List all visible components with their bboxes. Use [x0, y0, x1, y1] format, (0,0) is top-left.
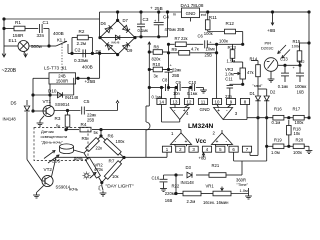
- svg-text:0.1мк: 0.1мк: [152, 94, 163, 99]
- svg-text:"smd": "smd": [253, 84, 264, 88]
- svg-text:D10: D10: [48, 88, 57, 93]
- svg-text:0.33мк: 0.33мк: [74, 58, 89, 63]
- svg-text:+25В: +25В: [85, 79, 96, 84]
- svg-text:10мк: 10мк: [206, 46, 216, 51]
- svg-text:D9: D9: [127, 48, 133, 53]
- svg-text:400В: 400В: [53, 31, 64, 36]
- svg-text:R16: R16: [274, 107, 282, 112]
- svg-text:C16: C16: [152, 176, 160, 181]
- svg-text:R17: R17: [293, 107, 301, 112]
- svg-text:1.0м: 1.0м: [240, 188, 249, 193]
- svg-text:SS9014: SS9014: [56, 184, 71, 189]
- svg-text:С2: С2: [75, 47, 81, 52]
- svg-text:R1: R1: [15, 20, 21, 25]
- svg-text:C3: C3: [143, 17, 149, 22]
- svg-text:"День-ночь": "День-ночь": [41, 139, 63, 144]
- svg-text:400В: 400В: [82, 65, 93, 70]
- svg-text:100к: 100к: [295, 120, 304, 125]
- svg-text:100к: 100к: [204, 31, 213, 36]
- svg-text:4.7к: 4.7к: [191, 46, 199, 51]
- svg-text:GND: GND: [186, 11, 196, 16]
- svg-text:10n: 10n: [173, 91, 181, 96]
- svg-text:R4: R4: [81, 122, 87, 127]
- svg-text:IN4148: IN4148: [3, 117, 17, 122]
- svg-text:R7: R7: [109, 158, 115, 163]
- svg-text:16сек. 16мин: 16сек. 16мин: [203, 200, 229, 205]
- svg-text:C4: C4: [163, 15, 169, 20]
- svg-text:CDS: CDS: [52, 158, 61, 163]
- svg-text:1.5м: 1.5м: [227, 58, 236, 63]
- svg-text:C9: C9: [176, 80, 182, 85]
- svg-text:100к: 100к: [293, 150, 302, 155]
- svg-text:0.1мк: 0.1мк: [187, 91, 198, 96]
- svg-text:500w: 500w: [31, 44, 43, 49]
- svg-text:День: День: [74, 156, 84, 161]
- svg-text:SS9014: SS9014: [55, 102, 70, 107]
- svg-text:22n: 22n: [225, 94, 233, 99]
- svg-text:1.0м: 1.0м: [271, 150, 280, 155]
- svg-text:+: +: [216, 139, 219, 145]
- svg-text:ext: ext: [201, 12, 207, 17]
- svg-text:R19: R19: [274, 137, 282, 142]
- svg-text:Vcc: Vcc: [196, 139, 207, 145]
- svg-text:1500R: 1500R: [56, 78, 68, 83]
- svg-text:ночь: ночь: [69, 186, 79, 191]
- svg-text:R20: R20: [296, 137, 304, 142]
- svg-text:C1: C1: [43, 20, 49, 25]
- svg-text:470к: 470к: [94, 167, 103, 172]
- svg-text:C13: C13: [280, 56, 288, 61]
- svg-text:25В: 25В: [155, 6, 163, 11]
- svg-text:R11: R11: [209, 15, 218, 20]
- svg-text:С6: С6: [198, 33, 204, 38]
- svg-text:22к: 22к: [96, 146, 103, 151]
- svg-text:R5: R5: [82, 136, 88, 141]
- svg-text:D5: D5: [11, 100, 17, 105]
- svg-text:R14: R14: [250, 56, 258, 61]
- svg-text:R2: R2: [79, 29, 85, 34]
- svg-text:D203C: D203C: [261, 45, 274, 50]
- svg-text:R13: R13: [228, 45, 237, 50]
- svg-text:+: +: [217, 108, 220, 114]
- svg-text:+8В: +8В: [267, 28, 275, 33]
- svg-text:VR1: VR1: [206, 184, 215, 189]
- svg-text:12: 12: [187, 99, 192, 104]
- svg-text:C8: C8: [162, 77, 168, 82]
- svg-text:100к: 100к: [292, 43, 301, 48]
- svg-text:+: +: [150, 6, 153, 11]
- svg-text:47к: 47к: [247, 70, 254, 75]
- svg-text:10: 10: [215, 99, 220, 104]
- svg-text:R6: R6: [108, 133, 114, 138]
- svg-text:3к: 3к: [154, 74, 158, 79]
- svg-text:33n: 33n: [37, 33, 45, 38]
- svg-text:16В: 16В: [165, 198, 173, 203]
- svg-text:DA1 78L08: DA1 78L08: [181, 3, 204, 8]
- svg-text:C10: C10: [189, 80, 197, 85]
- svg-text:К1.1: К1.1: [57, 38, 67, 43]
- svg-text:25В: 25В: [205, 52, 213, 57]
- svg-text:820к: 820к: [152, 56, 161, 61]
- svg-text:D6: D6: [101, 21, 107, 26]
- svg-text:100мк: 100мк: [295, 84, 307, 89]
- svg-text:0.1мк: 0.1мк: [278, 84, 289, 89]
- svg-text:C11: C11: [225, 76, 233, 81]
- svg-text:IN4148: IN4148: [181, 180, 195, 185]
- svg-text:10к: 10к: [112, 174, 119, 179]
- svg-text:5к: 5к: [94, 130, 98, 135]
- svg-text:LS-T73 :К1: LS-T73 :К1: [44, 65, 67, 70]
- svg-text:10к: 10к: [294, 131, 301, 136]
- svg-text:5к: 5к: [56, 124, 60, 129]
- svg-text:R3: R3: [55, 116, 61, 121]
- svg-text:VT2: VT2: [44, 167, 53, 172]
- svg-text:IN4148: IN4148: [65, 95, 79, 100]
- svg-text:D8: D8: [96, 49, 102, 54]
- svg-text:D3: D3: [186, 165, 192, 170]
- svg-text:R8: R8: [154, 44, 160, 49]
- svg-text:R9: R9: [172, 47, 178, 52]
- svg-text:0.1мк: 0.1мк: [138, 28, 149, 33]
- svg-text:0.1м: 0.1м: [272, 120, 281, 125]
- svg-text:2.2м: 2.2м: [187, 199, 196, 204]
- svg-text:C12: C12: [298, 60, 305, 64]
- svg-text:100к: 100к: [116, 139, 125, 144]
- svg-text:LM324N: LM324N: [188, 123, 214, 130]
- svg-text:D1: D1: [250, 91, 256, 96]
- svg-text:VT1: VT1: [43, 99, 52, 104]
- svg-text:100к: 100к: [219, 38, 228, 43]
- svg-text:"Time": "Time": [237, 182, 249, 187]
- svg-text:R21: R21: [212, 163, 220, 168]
- svg-text:+8В: +8В: [199, 156, 207, 161]
- svg-text:11: 11: [201, 99, 206, 104]
- svg-text:D7: D7: [123, 18, 129, 23]
- svg-text:R10: R10: [153, 62, 161, 67]
- svg-text:25В: 25В: [87, 118, 95, 123]
- svg-text:R7 22к: R7 22к: [175, 36, 188, 41]
- svg-text:IN4148: IN4148: [111, 41, 120, 45]
- svg-text:C5: C5: [84, 99, 90, 104]
- svg-text:~220В: ~220В: [2, 68, 17, 74]
- svg-text:GND: GND: [200, 107, 211, 112]
- svg-text:2.2м: 2.2м: [77, 41, 87, 46]
- svg-text:in: in: [173, 12, 176, 17]
- svg-text:25В: 25В: [172, 73, 180, 78]
- svg-text:470мк 35В: 470мк 35В: [165, 27, 185, 32]
- svg-text:13: 13: [173, 99, 178, 104]
- svg-text:D2: D2: [270, 90, 276, 95]
- svg-text:R22: R22: [172, 183, 180, 188]
- svg-text:16В: 16В: [297, 89, 305, 94]
- svg-text:R12: R12: [226, 21, 235, 26]
- svg-text:"DAY LiGHT": "DAY LiGHT": [106, 184, 134, 190]
- svg-text:14: 14: [159, 99, 164, 104]
- svg-text:22мк: 22мк: [172, 68, 181, 73]
- svg-text:+: +: [184, 139, 187, 145]
- svg-text:EL1: EL1: [9, 38, 18, 43]
